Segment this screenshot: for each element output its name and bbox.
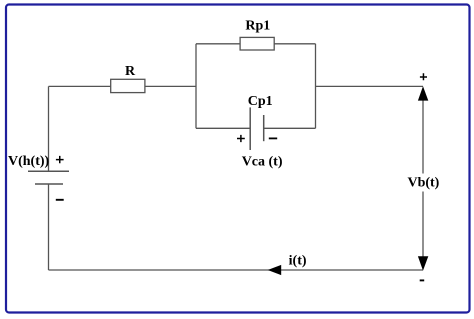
svg-text:Vb(t): Vb(t) bbox=[407, 175, 439, 190]
svg-text:R: R bbox=[125, 64, 136, 79]
svg-text:V(h(t)): V(h(t)) bbox=[8, 154, 50, 169]
svg-text:i(t): i(t) bbox=[289, 254, 307, 269]
svg-text:Rp1: Rp1 bbox=[245, 18, 270, 33]
svg-text:Cp1: Cp1 bbox=[248, 94, 273, 109]
svg-text:Vca (t): Vca (t) bbox=[242, 155, 283, 170]
